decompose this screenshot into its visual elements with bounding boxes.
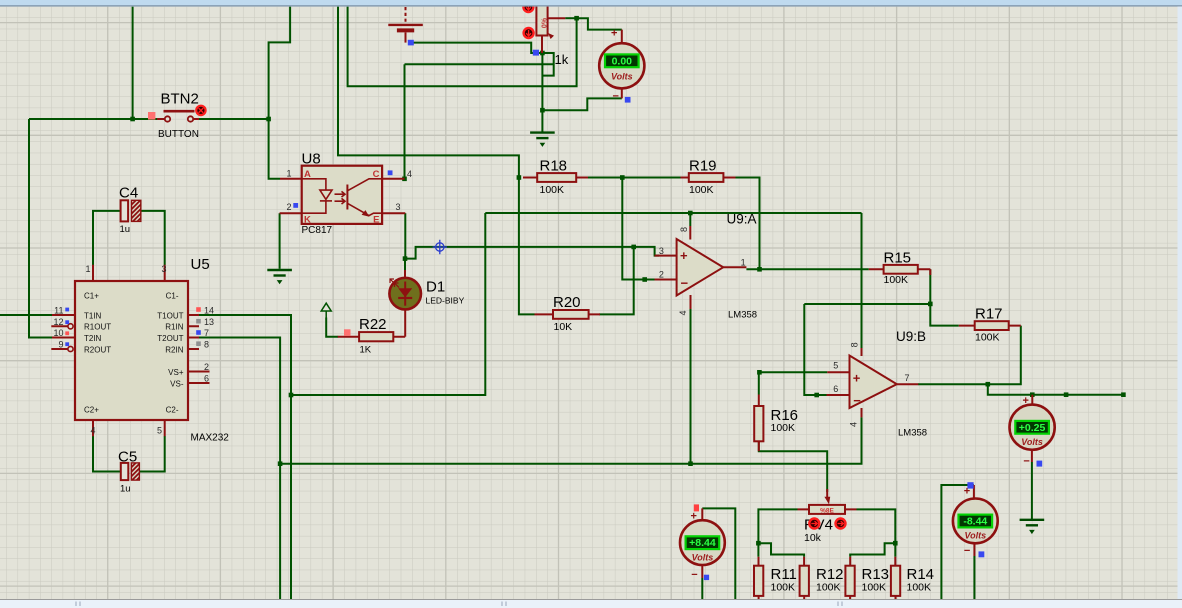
- svg-text:3: 3: [659, 246, 664, 256]
- resistor R18: [523, 173, 588, 182]
- pin state square at VM1 minus: [625, 97, 631, 103]
- svg-text:−: −: [613, 91, 619, 103]
- wire: LED node vertical from 1k row: [405, 63, 554, 65]
- svg-text:Volts: Volts: [692, 552, 714, 562]
- ground (U8 pin2): [267, 270, 292, 283]
- svg-text:3: 3: [396, 202, 401, 212]
- svg-text:−: −: [853, 393, 861, 408]
- pin state square near R22: [344, 329, 351, 336]
- wire: R20 right up to input node: [599, 247, 634, 315]
- svg-text:1K: 1K: [360, 344, 372, 355]
- op-amp U9:B: [827, 348, 919, 417]
- capacitor C5: [121, 463, 140, 480]
- U5 R1OUT inversion bubble: [68, 324, 73, 329]
- wire: VM4 plus over to bottom edge: [941, 485, 974, 599]
- svg-text:7: 7: [204, 328, 209, 338]
- svg-text:5: 5: [157, 426, 162, 436]
- wire: U9:B output row: [918, 326, 1021, 385]
- voltmeter VM1: [599, 28, 644, 103]
- U8 corner letters: [304, 169, 380, 226]
- wire: BTN2 row right segment to U8 pin1 drop: [199, 118, 269, 120]
- svg-text:100K: 100K: [884, 274, 909, 286]
- svg-text:100K: 100K: [771, 422, 796, 434]
- svg-text:R19: R19: [689, 158, 717, 175]
- svg-text:+: +: [853, 371, 861, 386]
- wire: U9:A pin8 stub link: [689, 213, 691, 226]
- U8 pin stubs: [280, 179, 406, 213]
- svg-text:C4: C4: [119, 185, 138, 202]
- wire: C4 right link to U5 pin3: [141, 211, 165, 265]
- svg-text:R1IN: R1IN: [165, 323, 183, 332]
- bottom window strip: [0, 599, 1182, 600]
- resistor R17: [959, 321, 1021, 330]
- resistor R12: [800, 557, 809, 599]
- U8 internal photodiode: [302, 179, 345, 213]
- button BTN2: [148, 106, 206, 122]
- svg-text:LM358: LM358: [728, 310, 757, 321]
- wire: R19 right feedback down to output row: [735, 178, 760, 270]
- wire: C4 left link to U5 pin1: [93, 211, 121, 265]
- pin state square at 1k node: [533, 50, 539, 56]
- svg-text:R18: R18: [540, 158, 568, 175]
- wire: C5 right link to U5 pin5: [139, 436, 165, 472]
- svg-text:6: 6: [204, 373, 209, 383]
- svg-text:4: 4: [678, 310, 688, 315]
- wire: RV4 left to R11 node: [758, 509, 797, 556]
- wire: top jog down to U8 pin1: [269, 7, 291, 179]
- svg-text:R1OUT: R1OUT: [84, 323, 111, 332]
- svg-text:100K: 100K: [907, 582, 932, 594]
- wire: R18 R19 row: [587, 177, 681, 179]
- svg-text:BTN2: BTN2: [161, 91, 199, 108]
- wire: R18/R19 node down to U9:A pin2: [622, 178, 654, 280]
- svg-text:8: 8: [679, 227, 689, 232]
- svg-text:−: −: [964, 545, 970, 557]
- svg-text:100K: 100K: [816, 582, 841, 594]
- svg-text:4: 4: [849, 422, 859, 427]
- svg-text:BUTTON: BUTTON: [158, 129, 199, 140]
- svg-text:+8.44: +8.44: [689, 537, 716, 549]
- U8 internal transistor: [347, 179, 382, 216]
- svg-text:4: 4: [90, 426, 95, 436]
- wire: 1k node down to ground: [541, 53, 543, 132]
- wire: VM3 plus up over to bottom edge: [702, 508, 735, 599]
- svg-text:100K: 100K: [862, 582, 887, 594]
- svg-text:+: +: [691, 511, 697, 523]
- svg-text:%8E: %8E: [820, 507, 834, 514]
- svg-text:6: 6: [833, 384, 838, 394]
- wire: power rail left drop and bottom link: [291, 213, 485, 395]
- svg-text:E: E: [373, 214, 379, 225]
- voltmeter VM2: [1010, 395, 1055, 468]
- svg-text:U8: U8: [302, 150, 321, 167]
- resistor R20: [535, 310, 601, 319]
- svg-text:10k: 10k: [804, 532, 822, 544]
- svg-text:13: 13: [204, 317, 214, 327]
- svg-text:1: 1: [741, 258, 746, 268]
- wire: R16 top stub link: [758, 372, 760, 394]
- wire: U5 T2OUT to bottom edge: [199, 338, 280, 600]
- svg-text:100K: 100K: [540, 184, 565, 196]
- wire: U5 T1OUT to bottom edge: [199, 315, 291, 599]
- svg-text:10K: 10K: [554, 321, 573, 333]
- svg-text:U9:B: U9:B: [896, 329, 926, 344]
- svg-text:Volts: Volts: [1021, 437, 1043, 447]
- wire: VM4 minus to bottom edge: [973, 556, 975, 599]
- wire: node to U9:A pin3: [634, 247, 659, 256]
- wire: BTN2 row left segment: [29, 118, 157, 120]
- svg-text:R2IN: R2IN: [165, 345, 183, 354]
- svg-text:8: 8: [849, 342, 859, 347]
- battery cell top: [388, 7, 423, 45]
- op-amp U9:A: [655, 226, 747, 309]
- wire: VM3 minus to bottom edge: [701, 578, 703, 599]
- U5 pin stubs: [51, 265, 209, 436]
- svg-text:Volts: Volts: [964, 531, 986, 541]
- wire: R16 top to U9:B pin5: [759, 371, 827, 373]
- svg-text:100K: 100K: [689, 184, 714, 196]
- U5 pin state squares: [65, 307, 201, 346]
- input terminal arrow: [321, 303, 331, 318]
- U5 pin names: [84, 291, 184, 414]
- svg-text:0%: 0%: [542, 17, 549, 28]
- svg-text:R17: R17: [975, 305, 1003, 322]
- svg-text:+: +: [1023, 395, 1029, 407]
- svg-text:+: +: [964, 485, 970, 497]
- svg-text:-8.44: -8.44: [963, 516, 987, 528]
- wire: U8 pin2 to ground: [279, 213, 281, 269]
- wire: long ground-return horizontal: [280, 417, 861, 464]
- svg-text:R15: R15: [884, 249, 912, 266]
- svg-text:−: −: [681, 276, 689, 291]
- svg-text:1: 1: [286, 168, 291, 178]
- svg-text:MAX232: MAX232: [191, 433, 230, 444]
- svg-text:1: 1: [85, 264, 90, 274]
- wire: VM1 minus return to ground node: [542, 98, 621, 110]
- wire: LED node to D1 anode: [404, 259, 406, 270]
- svg-text:+: +: [611, 28, 617, 40]
- svg-text:R20: R20: [553, 294, 581, 311]
- svg-text:1k: 1k: [555, 52, 569, 67]
- RV4 adjust buttons: [809, 519, 845, 529]
- svg-text:11: 11: [54, 306, 63, 316]
- wire: BTN2 left drop to U5 T2IN: [29, 119, 52, 338]
- wire: battery output to 1k node: [414, 43, 543, 53]
- svg-text:−: −: [1023, 455, 1029, 467]
- ground (VM2 minus): [1020, 520, 1045, 533]
- svg-text:U5: U5: [191, 256, 210, 273]
- resistor R15: [869, 265, 931, 275]
- wire: LED node step to comparator input row: [405, 247, 634, 259]
- wire: VM2 minus to ground: [1031, 462, 1033, 519]
- svg-text:−: −: [691, 569, 697, 581]
- svg-text:C1+: C1+: [84, 291, 99, 300]
- svg-text:+: +: [680, 248, 688, 263]
- svg-text:PC817: PC817: [302, 225, 333, 236]
- svg-text:5: 5: [833, 361, 838, 371]
- svg-text:7: 7: [905, 373, 910, 383]
- wire: U9:A output row to R15: [746, 268, 868, 270]
- svg-text:14: 14: [204, 306, 214, 316]
- wire: RV4 right to R14 node: [857, 509, 896, 556]
- U8 pin state squares: [293, 203, 298, 208]
- wire: left edge to U5 T1IN: [0, 314, 52, 316]
- wire: pin6 node horizontal: [804, 303, 930, 305]
- U5 R2OUT inversion bubble: [68, 346, 73, 351]
- svg-text:R13: R13: [862, 566, 890, 583]
- wire: vertical x=404.5 down to U8 pin4 junction: [404, 64, 406, 179]
- wire: top feed down to R18/R20 left column: [338, 7, 535, 315]
- svg-text:LED-BIBY: LED-BIBY: [426, 296, 465, 306]
- svg-text:LM358: LM358: [898, 428, 927, 439]
- resistor R19: [681, 173, 736, 182]
- svg-text:T1OUT: T1OUT: [157, 311, 183, 320]
- voltmeter VM3: [680, 504, 725, 580]
- wire: R15 right down to R17 node: [930, 269, 959, 325]
- U9:B pin numbers: [833, 342, 909, 427]
- svg-text:Volts: Volts: [611, 72, 633, 82]
- svg-text:K: K: [304, 214, 311, 225]
- wire: C5 left link to U5 pin4: [93, 436, 121, 472]
- svg-text:8: 8: [204, 340, 209, 350]
- svg-text:10: 10: [53, 328, 63, 338]
- wire: top feed down to 1k-node row: [348, 7, 577, 87]
- wire: 1k node small loop: [542, 53, 553, 76]
- U8 pin numbers: [286, 168, 412, 212]
- svg-text:2: 2: [286, 202, 291, 212]
- svg-text:C: C: [373, 169, 380, 180]
- potentiometer RV4: [798, 489, 857, 514]
- svg-text:T2OUT: T2OUT: [157, 334, 183, 343]
- wire: R11 node branch to R12: [758, 543, 804, 557]
- origin marker (blue crosshair): [433, 240, 447, 254]
- svg-text:2: 2: [659, 270, 664, 280]
- svg-text:R2OUT: R2OUT: [84, 345, 111, 354]
- svg-text:R22: R22: [359, 316, 387, 333]
- ground (1k battery node): [530, 133, 555, 146]
- U9:A pin numbers: [659, 227, 746, 316]
- svg-text:1u: 1u: [120, 483, 131, 494]
- wire: top feed to BTN2 row (vertical x=132.6): [132, 7, 134, 119]
- U5 pin numbers: [53, 264, 214, 436]
- svg-text:R14: R14: [907, 566, 935, 583]
- svg-text:100K: 100K: [771, 582, 796, 594]
- wire: R16 bottom to RV4 wiper: [759, 441, 827, 492]
- svg-text:4: 4: [407, 169, 412, 179]
- IC U5 MAX232 body: [75, 281, 188, 420]
- svg-text:+0.25: +0.25: [1019, 422, 1046, 434]
- wire: U8 pin3 E drop to LED node: [404, 213, 406, 258]
- svg-text:3: 3: [161, 264, 166, 274]
- svg-text:9: 9: [58, 340, 63, 350]
- wire: pin6 node drop to U9:B pin2: [804, 304, 826, 395]
- svg-text:2: 2: [204, 362, 209, 372]
- svg-text:VS-: VS-: [170, 379, 184, 388]
- resistor R16: [754, 395, 763, 452]
- wire: output node to VM2 row: [988, 384, 1124, 395]
- LED D1: [389, 270, 421, 337]
- resistor R22: [338, 332, 406, 341]
- svg-text:T1IN: T1IN: [84, 311, 102, 320]
- capacitor C4: [121, 200, 141, 221]
- resistor R11: [754, 557, 763, 599]
- wire: power rail: [485, 212, 861, 214]
- svg-text:R11: R11: [771, 566, 797, 583]
- resistor R14: [891, 557, 900, 599]
- svg-text:100K: 100K: [975, 331, 1000, 343]
- optocoupler U8 PC817 body: [302, 166, 382, 224]
- svg-text:T2IN: T2IN: [84, 334, 102, 343]
- svg-text:1u: 1u: [120, 224, 131, 235]
- svg-text:A: A: [304, 169, 311, 180]
- pot 1k adjust buttons: [523, 2, 533, 38]
- svg-text:R12: R12: [816, 566, 844, 583]
- svg-text:12: 12: [53, 317, 63, 327]
- wire: U9:A pin4 drop: [690, 309, 692, 464]
- voltmeter VM4: [953, 482, 998, 557]
- resistor R13: [845, 557, 854, 599]
- svg-text:C5: C5: [118, 449, 137, 466]
- wire: pot wiper to junction and voltmeter plus: [565, 17, 576, 19]
- potentiometer 1k (top) body: [536, 4, 565, 53]
- svg-text:U9:A: U9:A: [727, 212, 757, 227]
- top window strip: [0, 0, 1182, 5]
- wire: U9:B pin8 drop: [861, 213, 863, 348]
- svg-text:0.00: 0.00: [612, 56, 633, 68]
- svg-text:C2-: C2-: [166, 405, 179, 414]
- svg-text:C2+: C2+: [84, 405, 99, 414]
- svg-text:C1-: C1-: [166, 291, 179, 300]
- page edge marks in bottom strip: [76, 602, 842, 607]
- wire: R14 node branch to R13: [850, 543, 895, 557]
- svg-text:D1: D1: [426, 279, 445, 296]
- wire: junction to voltmeter VM1 plus: [577, 18, 622, 29]
- right window strip: [1178, 7, 1182, 599]
- wire: R22 input terminal link: [326, 318, 338, 337]
- svg-text:VS+: VS+: [168, 368, 184, 377]
